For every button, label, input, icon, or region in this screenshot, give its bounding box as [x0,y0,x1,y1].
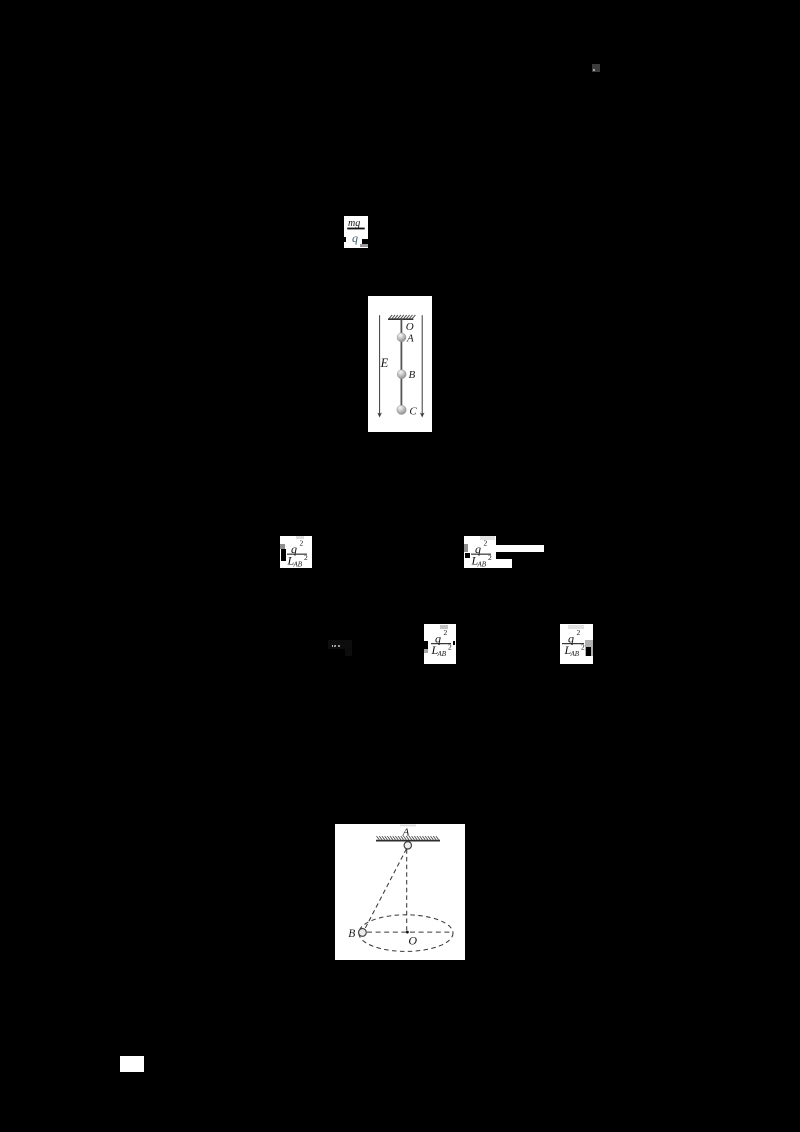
svg-text:2: 2 [444,628,448,637]
svg-text:O: O [406,320,414,332]
svg-text:2: 2 [488,553,492,562]
svg-text:E: E [380,355,389,369]
svg-text:2: 2 [300,539,304,548]
svg-text:C: C [409,405,417,417]
svg-text:2: 2 [581,642,585,651]
svg-text:q: q [352,231,358,245]
svg-text:mg: mg [348,218,360,229]
svg-text:AB: AB [476,560,486,568]
svg-text:A: A [402,827,410,839]
svg-text:B: B [409,369,416,381]
svg-text:2: 2 [448,642,452,651]
svg-text:O: O [408,934,417,948]
svg-text:A: A [406,332,414,344]
svg-text:2: 2 [576,628,580,637]
svg-text:AB: AB [569,650,579,658]
svg-text:2: 2 [304,553,308,562]
svg-text:AB: AB [293,561,303,569]
svg-text:AB: AB [437,650,447,658]
svg-text:B: B [348,928,355,940]
